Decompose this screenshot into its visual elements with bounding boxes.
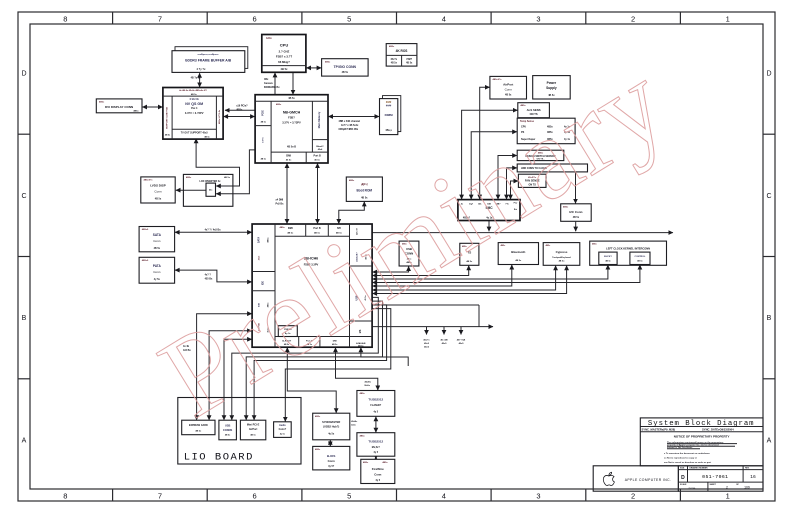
svg-text:4B5x: 4B5x: [186, 176, 192, 179]
svg-text:LV?5: LV?5: [263, 137, 265, 143]
svg-text:4B5x: 4B5x: [99, 100, 105, 103]
svg-text:8: 8: [63, 14, 67, 23]
block U1 GDDR3 frame buffer A/B: [172, 51, 245, 73]
svg-text:4B5x: 4B5x: [349, 179, 355, 182]
border row ticks left and right: [18, 133, 30, 135]
block U18 USB2 hub: [313, 413, 350, 440]
svg-text:6 9G 0G: 6 9G 0G: [190, 98, 199, 101]
svg-text:FLASH8?: FLASH8?: [370, 404, 381, 407]
wire TUSB2512 lower to FireWire connector: [375, 457, 377, 459]
svg-text:5: 5: [347, 14, 351, 23]
svg-text:System Block Diagram: System Block Diagram: [648, 420, 755, 428]
wire ICH AC97 long I2C bus line: [373, 232, 673, 234]
wire SMC to thermal bus block: [507, 168, 517, 199]
svg-text:Port B: Port B: [314, 155, 321, 158]
wire USB2 hub to B-IOS connector: [329, 440, 331, 446]
svg-text:B: B: [22, 315, 27, 322]
svg-text:4y 5x: 4y 5x: [328, 433, 335, 436]
border column ticks top and bottom: [112, 12, 114, 24]
block U6 inverter chip: [206, 183, 216, 196]
svg-text:x4 DMI: x4 DMI: [276, 198, 284, 201]
svg-text:4B 5x: 4B 5x: [261, 121, 267, 124]
apple logo: [603, 472, 614, 485]
svg-text:3: 3: [536, 14, 540, 23]
title block lower cells frame: [678, 466, 763, 491]
wire DVI display connector to GPU: [142, 106, 162, 108]
wire GDDR3 frame buffer to GPU (AGP bus): [199, 73, 201, 87]
block J11 LIO USB connectors: [219, 420, 237, 440]
svg-text:4B 5x: 4B 5x: [559, 260, 566, 263]
svg-text:45 x5B: 45 x5B: [440, 338, 447, 341]
svg-text:SHEET: SHEET: [710, 484, 717, 486]
svg-text:4x 4B 4x 45x8x 4B5x4x 4/?: 4x 4B 4x 45x8x 4B5x4x 4/?: [179, 89, 207, 92]
svg-text:x16 PCIe?: x16 PCIe?: [236, 105, 248, 108]
svg-text:4B 5x: 4B 5x: [406, 62, 413, 65]
svg-text:4B5x: 4B5x: [280, 226, 286, 229]
block U5 NB-GMCH north bridge: [255, 95, 328, 163]
svg-text:7: 7: [158, 491, 162, 500]
block J1 TP/GIO connector: [322, 59, 369, 76]
svg-text:4B5x9: 4B5x9: [142, 228, 149, 231]
block J2 AirPort connector: [490, 76, 527, 99]
svg-text:3.3?V = 3.?3PV: 3.3?V = 3.?3PV: [282, 121, 301, 125]
svg-text:CPU: CPU: [280, 42, 289, 47]
wire inverter module to LVDS display connector: [176, 189, 206, 191]
block U20 TUSB2512 lower: [357, 433, 395, 457]
block U17 CONTROL cell: [630, 252, 650, 264]
svg-text:Audio: Audio: [279, 424, 286, 427]
svg-text:4Bx: 4Bx: [264, 78, 269, 81]
svg-text:Conn: Conn: [328, 459, 335, 463]
svg-text:2.? GHZ: 2.? GHZ: [279, 50, 290, 54]
block J6 SATA connector: [139, 227, 175, 252]
svg-text:800MHZ85 Bx: 800MHZ85 Bx: [264, 86, 280, 89]
svg-text:DMI: DMI: [288, 226, 293, 230]
svg-text:Trackpad/Keyboard: Trackpad/Keyboard: [552, 257, 571, 259]
svg-text:7: 7: [158, 14, 162, 23]
svg-text:4B5x9: 4B5x9: [142, 259, 149, 262]
block U15 Cypress trackpad controller: [543, 243, 580, 266]
svg-text:xx Nxt tx rxprxdxcxd xx cxpy x: xx Nxt tx rxprxdxcxd xx cxpy xt: [664, 456, 697, 459]
svg-text:SCALE: SCALE: [680, 483, 687, 486]
svg-text:AirPort: AirPort: [503, 83, 513, 87]
block U16 BUCK cell: [599, 252, 617, 264]
svg-text:8: 8: [63, 491, 67, 500]
wire ICH left port to LIO express card (first): [197, 314, 252, 420]
svg-text:TUSB2512: TUSB2512: [368, 439, 383, 443]
svg-text:3: 3: [536, 491, 540, 500]
svg-text:####: ####: [386, 104, 392, 107]
svg-text:D: D: [681, 475, 685, 481]
svg-text:Pxx 4: Pxx 4: [191, 107, 198, 110]
svg-text:TP/GIO CONN: TP/GIO CONN: [334, 65, 357, 69]
svg-text:SYNC_MASTERe(P9_M28): SYNC_MASTERe(P9_M28): [642, 427, 676, 431]
svg-text:4B 5x: 4B 5x: [191, 93, 198, 96]
svg-text:SIZE: SIZE: [680, 468, 685, 470]
block J9 internal USB connector: [399, 241, 419, 266]
title block sync row: [640, 431, 763, 433]
svg-text:4B 5x: 4B 5x: [505, 94, 512, 97]
svg-text:Conn?: Conn?: [279, 428, 287, 431]
svg-text:Cypress: Cypress: [556, 250, 568, 254]
wire TUSB2512 upper to lower: [375, 417, 377, 433]
svg-text:455 Bx: 455 Bx: [205, 277, 213, 280]
wire GMCH Port B down to ICH: [317, 163, 319, 223]
block U19 TUSB2512 upper: [357, 391, 395, 417]
svg-text:4B5x: 4B5x: [276, 103, 282, 106]
wire ICH wrap-around to LIO USB connectors (second): [232, 297, 378, 419]
svg-text:4B 5x-B: 4B 5x-B: [287, 145, 296, 148]
svg-text:4B 5x: 4B 5x: [281, 67, 288, 71]
svg-text:GDDR3 FRAME BUFFER A/B: GDDR3 FRAME BUFFER A/B: [185, 58, 232, 62]
svg-text:FSB?: FSB?: [288, 115, 295, 119]
svg-text:DRAWING NUMBER: DRAWING NUMBER: [690, 467, 709, 470]
svg-text:4B 5x: 4B 5x: [155, 197, 162, 200]
svg-text:CONTROL: CONTROL: [634, 256, 645, 258]
block LIO board outline: [178, 398, 301, 465]
svg-text:Mx5x: Mx5x: [365, 385, 371, 387]
wire GMCH DMI down to ICH: [286, 163, 288, 223]
svg-text:B-IOS: B-IOS: [327, 454, 335, 458]
svg-text:45x?x: 45x?x: [391, 58, 398, 61]
block U4 NVIDIA GPU: [163, 88, 223, 140]
svg-text:4B 5x: 4B 5x: [605, 259, 611, 262]
wire SMC drop to I2C bus line: [488, 221, 490, 231]
svg-text:4B 5x: 4B 5x: [154, 247, 161, 250]
svg-text:D: D: [766, 71, 771, 78]
wire GMCH to DIMM memory bus: [328, 116, 379, 118]
svg-text:6: 6: [253, 14, 257, 23]
svg-text:4y 5x: 4y 5x: [154, 278, 161, 281]
svg-text:4B5x: 4B5x: [360, 434, 366, 437]
block U12 PMU cell inside ICH: [278, 326, 297, 337]
wire PATA connector to ICH: [175, 270, 252, 282]
svg-text:4y 5?: 4y 5?: [328, 465, 335, 468]
svg-text:REV.: REV.: [745, 468, 750, 470]
svg-text:4B5x LV?5 4x: 4B5x LV?5 4x: [218, 109, 221, 124]
svg-text:4x? ?: 4x? ?: [205, 274, 212, 277]
svg-text:4B5x: 4B5x: [363, 461, 369, 464]
svg-text:4B5x: 4B5x: [382, 461, 388, 464]
block J8 I2C connector: [561, 204, 592, 222]
svg-text:LCD INVERTER 4x: LCD INVERTER 4x: [200, 180, 222, 183]
svg-text:LVDS DISP: LVDS DISP: [150, 184, 166, 188]
block PS1 power supply: [533, 76, 571, 99]
svg-text:4B5x9?x: 4B5x9?x: [493, 78, 503, 81]
title block heading System Block Diagram: [640, 426, 763, 428]
svg-text:45x5: 45x5: [442, 342, 448, 345]
block J15 FireWire connector: [361, 459, 395, 483]
block J14 B-IOS connector: [313, 446, 350, 470]
svg-text:4B 5x: 4B 5x: [204, 135, 210, 138]
svg-text:4y 5: 4y 5: [375, 479, 380, 482]
wire ICH wrap-around to LIO mini PCI-E (second): [254, 305, 387, 420]
wire I2S drop arrow 2: [443, 327, 445, 335]
svg-text:5: 5: [347, 491, 351, 500]
svg-text:DIMM: DIMM: [385, 113, 393, 117]
svg-text:Main Memory: Main Memory: [317, 111, 321, 128]
svg-text:4B 5x: 4B 5x: [225, 433, 231, 436]
block U11 SB-ICH6 south bridge: [252, 224, 372, 347]
block J10 express card slot: [182, 420, 215, 435]
svg-text:45x5: 45x5: [424, 342, 430, 345]
block N1 thermal bus block: [517, 164, 587, 172]
svg-text:64BpB/?4BB 4Bx: 64BpB/?4BB 4Bx: [339, 128, 359, 131]
svg-text:4B 5x: 4B 5x: [342, 71, 349, 74]
wire CPU to GMCH front side bus (up line): [274, 73, 276, 95]
svg-text:66 MHg?: 66 MHg?: [278, 60, 290, 64]
block S1 chassis switch sensor: [517, 150, 564, 160]
wire SATA connector to ICH: [175, 231, 252, 233]
svg-text:1: 1: [726, 14, 730, 23]
wire ICH USB port to Bluetooth module: [373, 265, 512, 286]
svg-text:4B5x: 4B5x: [267, 237, 270, 243]
svg-text:Conn: Conn: [154, 189, 162, 193]
wire ICH riser to I2S bus line: [373, 304, 480, 306]
svg-text:x Tx mxxntxxn thx dxcxmxnt xn: x Tx mxxntxxn thx dxcxmxnt xn cxnfxdxncx: [664, 452, 710, 455]
svg-text:LEFT CLOCK KERNEL INTERCONN: LEFT CLOCK KERNEL INTERCONN: [606, 246, 650, 250]
wire I2S drop arrow 3: [460, 327, 462, 335]
svg-text:C: C: [766, 193, 771, 200]
svg-text:45 5x: 45 5x: [314, 159, 320, 162]
svg-text:16: 16: [750, 474, 756, 480]
svg-text:Px5 Bx: Px5 Bx: [276, 202, 285, 205]
wire SMC to fan sense block: [511, 181, 519, 199]
block U14 Bluetooth module: [498, 243, 538, 265]
block J7 PATA connector: [139, 257, 175, 283]
wire ICH port to CONTROL block: [373, 265, 640, 283]
wire CPU to GMCH front side bus (down line): [292, 73, 294, 95]
svg-text:NV QS GM: NV QS GM: [185, 102, 203, 106]
block DIMM shadow: [383, 96, 401, 132]
svg-text:4Bx,x: 4Bx,x: [385, 129, 392, 132]
svg-text:45x5: 45x5: [424, 346, 430, 349]
svg-text:AP-I: AP-I: [361, 183, 367, 187]
svg-text:4B5x: 4B5x: [389, 45, 395, 48]
svg-text:2: 2: [631, 491, 635, 500]
block U8 ambient light sensor: [518, 103, 550, 118]
block J12 mini PCI-E AirPort: [240, 420, 265, 440]
wire SMC to ambient light sensor: [462, 110, 518, 199]
svg-text:4B5x: 4B5x: [325, 60, 331, 63]
svg-text:6: 6: [253, 491, 257, 500]
svg-text:4B ?y 5x: 4B ?y 5x: [191, 77, 202, 80]
svg-text:xxx Nxt tx rxvxxl xx dxxclxxx: xxx Nxt tx rxvxxl xx dxxclxxx xx xxxlx x…: [664, 461, 711, 464]
wire CPU to TP/GIO connector: [306, 67, 321, 69]
svg-text:4: 4: [442, 14, 446, 23]
svg-text:45xBx: 45xBx: [365, 380, 372, 383]
svg-text:45? ?yB: 45? ?yB: [457, 338, 466, 341]
svg-text:4B 5x: 4B 5x: [391, 62, 398, 65]
block U9 fan headers: [517, 118, 575, 144]
svg-text:4A4x: 4A4x: [266, 37, 272, 40]
svg-text:4BBx: 4BBx: [236, 108, 243, 111]
wire GPU auxiliary link stub: [225, 109, 255, 111]
title block apple logo box: [593, 466, 678, 491]
svg-text:NOTICE OF PROPRIETARY PROPERTY: NOTICE OF PROPRIETARY PROPERTY: [674, 434, 730, 438]
svg-text:4B 5x: 4B 5x: [165, 134, 171, 137]
svg-text:FireWire: FireWire: [372, 467, 384, 471]
svg-text:Mx,5x?: Mx,5x?: [372, 446, 381, 449]
svg-text:TV OUT SUPPORT 45x5: TV OUT SUPPORT 45x5: [181, 132, 209, 135]
svg-text:A: A: [767, 437, 772, 444]
svg-text:Conn: Conn: [153, 270, 161, 274]
title block frame: [640, 418, 763, 466]
svg-text:DVI DISPLAY CONN: DVI DISPLAY CONN: [105, 105, 133, 109]
svg-text:4x? ? / 4x5 Bx: 4x? ? / 4x5 Bx: [205, 228, 222, 231]
svg-text:SATA: SATA: [258, 237, 261, 243]
svg-text:2: 2: [631, 14, 635, 23]
wire SMC to fan header block: [471, 132, 517, 199]
block J5 LVDS display connector: [141, 177, 175, 203]
svg-text:TUSB2512: TUSB2512: [368, 397, 383, 401]
svg-text:4x?? x 4B 5x4x: 4x?? x 4B 5x4x: [341, 124, 359, 127]
svg-text:Conn: Conn: [505, 87, 513, 91]
wire thermal bus block down to I2C connector: [575, 172, 577, 203]
block M2 left clock kernel interconnect: [590, 241, 667, 265]
svg-text:4B5x9?x: 4B5x9?x: [144, 179, 154, 182]
svg-text:4y 5x: 4y 5x: [280, 432, 286, 435]
svg-text:4B 5x: 4B 5x: [224, 176, 231, 179]
svg-text:Blank?: Blank?: [316, 146, 324, 148]
svg-text:PATA: PATA: [153, 264, 162, 268]
svg-text:45xBx: 45xBx: [351, 420, 358, 423]
svg-text:Geneva: Geneva: [264, 82, 273, 85]
svg-text:SYNCMASTER: SYNCMASTER: [322, 420, 340, 424]
svg-text:4B 5x: 4B 5x: [515, 259, 522, 262]
wire GPU TV-out down to LCD inverter module: [196, 139, 239, 186]
wire ICH USB port 2 to TS block: [373, 266, 469, 276]
svg-text:4K ROS: 4K ROS: [396, 49, 408, 53]
svg-text:xxxBpxxx,xxxBpxxx: xxxBpxxx,xxxBpxxx: [197, 54, 219, 56]
svg-text:SUPPORT 5x8B??4B: SUPPORT 5x8B??4B: [166, 107, 169, 129]
svg-text:LIO BOARD: LIO BOARD: [184, 452, 254, 464]
svg-text:A: A: [22, 437, 27, 444]
svg-text:73M?: 73M?: [406, 59, 412, 61]
block U7 AP-I boot ROM: [346, 177, 382, 201]
svg-text:45 5x: 45 5x: [286, 159, 292, 162]
wire GMCH LVDS channel to inverter module: [216, 150, 255, 194]
svg-text:4y 5: 4y 5: [373, 451, 378, 454]
block U10 SMC system management controller: [458, 200, 520, 221]
wire ICH left port to LIO USB connectors: [224, 339, 252, 420]
wire ICH port to BUCK block: [373, 265, 608, 279]
wire I2S drop arrow 1: [426, 327, 428, 335]
title block size cell: [677, 466, 679, 491]
svg-text:4 ?y ?x: 4 ?y ?x: [197, 67, 206, 71]
svg-text:4B5x: 4B5x: [360, 392, 366, 395]
svg-text:4: 4: [442, 491, 446, 500]
svg-text:NB-GMCH: NB-GMCH: [283, 110, 301, 114]
block J13 audio connector: [274, 422, 292, 438]
wire boot ROM to ICH SPI port: [339, 202, 365, 224]
svg-text:B: B: [767, 315, 772, 322]
svg-text:(USB2 Hub?): (USB2 Hub?): [323, 424, 339, 428]
svg-text:BUCK?: BUCK?: [604, 256, 612, 258]
svg-text:3.3?V = 3.?3PV: 3.3?V = 3.?3PV: [185, 111, 204, 115]
block U13 TS: [460, 243, 479, 265]
block J4 DDR DIMM slots: [380, 99, 398, 135]
svg-text:Conn: Conn: [153, 239, 161, 243]
wire ICH USB port 1 to USB connector: [373, 266, 409, 272]
svg-text:4y 5: 4y 5: [373, 410, 378, 413]
wire ICH USB port to Cypress (second): [373, 266, 567, 294]
block U2 CPU: [262, 35, 306, 73]
wire ICH wrap-around to LIO audio connector: [285, 309, 391, 422]
svg-text:4B 5x: 4B 5x: [288, 97, 295, 100]
svg-text:Conn: Conn: [374, 473, 381, 477]
wire GPU to GMCH x16 PCIe link: [224, 116, 255, 118]
wire ICH bottom azalia elbow: [361, 348, 408, 366]
svg-text:4B 5x: 4B 5x: [261, 158, 267, 161]
svg-text:051-7061: 051-7061: [702, 474, 728, 480]
svg-text:4B5x: 4B5x: [315, 415, 321, 418]
svg-text:PCIE: PCIE: [262, 110, 265, 116]
svg-text:4B5x: 4B5x: [315, 448, 321, 451]
wire ICH I2S bus line with drop arrows: [373, 326, 494, 328]
block J3 DVI display connector: [96, 99, 142, 113]
block M1 LCD inverter module: [183, 174, 233, 206]
wire ICH wrap-around to LIO mini PCI-E (first): [246, 301, 382, 420]
wire ICH left port to LIO express card (second): [209, 331, 252, 420]
svg-text:SYNC_DATEeO9/23/2004: SYNC_DATEeO9/23/2004: [702, 427, 734, 431]
svg-text:Mini PCI-E: Mini PCI-E: [247, 424, 260, 427]
wire ICH USB port to Cypress (first): [373, 266, 556, 290]
svg-text:45x?x: 45x?x: [423, 338, 430, 341]
svg-text:1: 1: [726, 491, 730, 500]
block S2 fan sense: [518, 174, 546, 187]
svg-text:4B 5x: 4B 5x: [287, 231, 294, 234]
wire I2C connector drop to I2C bus line: [575, 222, 577, 232]
svg-text:AirPort: AirPort: [249, 428, 258, 431]
svg-text:FSB? x 3.?T: FSB? x 3.?T: [276, 55, 292, 59]
svg-text:4B 5x: 4B 5x: [250, 433, 256, 436]
svg-text:4B 5x: 4B 5x: [637, 259, 643, 262]
svg-text:4B5x: 4B5x: [133, 110, 139, 113]
svg-text:D: D: [21, 71, 26, 78]
wire ICH bottom to USB2 hub: [287, 348, 336, 413]
block GDDR3 frame buffer shadow: [175, 47, 248, 69]
wire SMC to chassis switch sensor: [498, 156, 517, 200]
svg-text:4BB x 64K channel: 4BB x 64K channel: [339, 120, 361, 123]
svg-text:C: C: [21, 193, 26, 200]
svg-text:45x5: 45x5: [459, 342, 465, 345]
wire SMC to AirPort connector: [480, 87, 490, 199]
block U3 4K ROS: [386, 44, 417, 67]
svg-text:SATA: SATA: [153, 233, 162, 237]
wire ICH bottom to TUSB2512 (upper): [336, 348, 378, 391]
svg-text:APPLE COMPUTER INC.: APPLE COMPUTER INC.: [625, 478, 672, 482]
svg-text:DMI: DMI: [286, 154, 291, 158]
